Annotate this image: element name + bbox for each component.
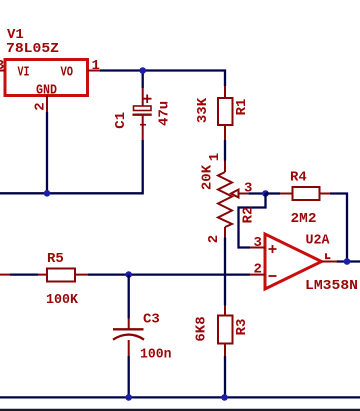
svg-text:78L05Z: 78L05Z bbox=[6, 41, 59, 57]
C3 top plate bbox=[113, 328, 144, 330]
op-amp minus mark bbox=[269, 275, 277, 277]
wire V1 GND down bbox=[46, 112, 48, 193]
svg-text:R4: R4 bbox=[290, 170, 307, 186]
R4 pins bbox=[280, 193, 330, 195]
R5 pins bbox=[38, 274, 88, 276]
svg-text:3: 3 bbox=[254, 235, 262, 251]
R5 left edge stub bbox=[0, 274, 10, 276]
wire pot bottom to R3 bbox=[224, 238, 226, 306]
svg-text:GND: GND bbox=[36, 83, 57, 99]
wire R4 right to output node bbox=[330, 194, 347, 262]
svg-text:VI: VI bbox=[18, 65, 30, 81]
svg-text:2: 2 bbox=[33, 102, 49, 110]
node junction bottom R3 bbox=[221, 394, 228, 401]
pin number 1 of U2A output bbox=[326, 253, 330, 258]
wire bottom rail bbox=[0, 396, 360, 398]
svg-text:2M2: 2M2 bbox=[291, 211, 317, 227]
op-amp U2A triangle bbox=[265, 234, 322, 289]
svg-text:100n: 100n bbox=[140, 347, 172, 363]
svg-text:33K: 33K bbox=[195, 97, 211, 123]
R2 wiper arrow bbox=[231, 190, 248, 198]
pin 2 of V1 bbox=[46, 96, 48, 113]
wire junction to R4 left bbox=[266, 192, 281, 194]
svg-text:VO: VO bbox=[61, 65, 74, 81]
capacitor C3 leads bbox=[128, 319, 130, 357]
svg-text:100K: 100K bbox=[46, 292, 79, 308]
node junction wiper bbox=[262, 190, 269, 197]
resistor R4 bbox=[293, 187, 320, 200]
svg-text:LM358N: LM358N bbox=[305, 278, 358, 294]
resistor R3 bbox=[218, 316, 233, 344]
C3 curved plate bbox=[113, 335, 144, 340]
svg-text:R5: R5 bbox=[47, 251, 64, 267]
svg-text:3: 3 bbox=[244, 181, 252, 197]
resistor R5 bbox=[47, 269, 75, 282]
R1 pins bbox=[224, 86, 226, 140]
wire wiper to junction bbox=[248, 192, 265, 194]
resistor R1 bbox=[218, 98, 233, 125]
svg-text:U2A: U2A bbox=[306, 233, 331, 249]
op-amp input pins bbox=[250, 248, 265, 275]
pin 3 of V1 bbox=[0, 70, 5, 72]
wire op-amp output to right edge bbox=[337, 260, 360, 262]
svg-text:C3: C3 bbox=[143, 312, 160, 328]
wire mid row net through R5 to op-amp minus input bbox=[10, 273, 250, 275]
wire R1 to pot bbox=[224, 140, 226, 161]
svg-text:3: 3 bbox=[0, 58, 4, 74]
svg-text:2: 2 bbox=[254, 262, 262, 278]
potentiometer R2 pins bbox=[224, 161, 226, 238]
svg-text:6K8: 6K8 bbox=[193, 316, 209, 341]
op-amp output pin bbox=[322, 261, 338, 263]
svg-text:1: 1 bbox=[207, 153, 223, 161]
C1 bottom plate bbox=[133, 113, 152, 115]
svg-text:R3: R3 bbox=[234, 319, 250, 336]
wire junction down to op-amp plus input bbox=[239, 194, 266, 248]
svg-text:C1: C1 bbox=[113, 112, 129, 129]
wire C3 leads blue bbox=[128, 275, 130, 398]
C1 plus sign bbox=[143, 95, 152, 104]
svg-text:47u: 47u bbox=[157, 101, 173, 126]
C1 top plate (hollow) bbox=[134, 106, 152, 111]
svg-text:20K: 20K bbox=[200, 164, 216, 190]
wire ground row to C1 bottom bbox=[0, 140, 143, 193]
svg-text:1: 1 bbox=[92, 58, 100, 74]
pin 1 of V1 bbox=[88, 70, 101, 72]
svg-text:R2: R2 bbox=[241, 207, 257, 224]
node junction bottom C3 bbox=[125, 394, 132, 401]
svg-text:R1: R1 bbox=[234, 99, 250, 116]
op-amp plus mark bbox=[269, 245, 277, 253]
regulator V1 box bbox=[5, 60, 88, 96]
R2 zigzag body bbox=[218, 172, 232, 227]
wire R3 to bottom rail bbox=[224, 356, 226, 397]
node junction output bbox=[344, 258, 351, 265]
R3 pins bbox=[224, 306, 226, 357]
wire C1 top lead blue bbox=[142, 71, 144, 89]
node junction ground row bbox=[44, 190, 51, 197]
capacitor C1 leads bbox=[142, 88, 144, 140]
wire top net from V1 pin1 over to R1 bbox=[100, 71, 225, 87]
node junction C1 top bbox=[139, 67, 146, 74]
C1 lead tick bbox=[140, 124, 146, 126]
sheet border line bbox=[0, 409, 360, 411]
node junction C3 top bbox=[125, 271, 132, 278]
svg-text:2: 2 bbox=[206, 235, 222, 243]
